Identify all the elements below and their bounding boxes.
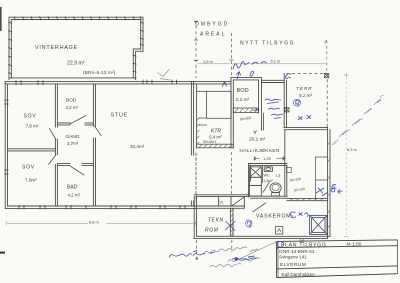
svg-text:Svingenv 141: Svingenv 141	[279, 254, 307, 259]
svg-text:VINTERHAGE: VINTERHAGE	[35, 45, 78, 51]
svg-text:BOD: BOD	[237, 88, 249, 94]
svg-text:7,6 m²: 7,6 m²	[26, 123, 39, 128]
svg-text:BAD: BAD	[67, 184, 78, 190]
svg-text:20,1 m²: 20,1 m²	[249, 136, 266, 142]
svg-text:1,5m²: 1,5m²	[264, 179, 274, 183]
svg-text:VASKEROM: VASKEROM	[256, 214, 291, 220]
svg-text:TERR: TERR	[296, 86, 313, 91]
svg-text:BOD: BOD	[66, 97, 77, 103]
svg-text:NYTT TILBYGG: NYTT TILBYGG	[240, 41, 295, 47]
svg-text:TEKN: TEKN	[208, 217, 224, 223]
svg-text:M-1:50: M-1:50	[347, 242, 362, 248]
svg-text:WC: WC	[264, 174, 271, 178]
svg-text:4,2 m²: 4,2 m²	[68, 192, 81, 197]
svg-text:1,9 m: 1,9 m	[203, 59, 213, 64]
svg-text:AREAL: AREAL	[200, 32, 226, 38]
svg-text:GANG: GANG	[66, 134, 80, 140]
svg-text:OMBYGD: OMBYGD	[195, 22, 229, 28]
svg-text:9,8 m: 9,8 m	[89, 220, 99, 225]
svg-text:3,7m²: 3,7m²	[67, 141, 79, 146]
svg-text:50×48×1: 50×48×1	[203, 140, 217, 144]
svg-text:5,1 m: 5,1 m	[271, 59, 281, 64]
svg-text:32,4m²: 32,4m²	[130, 144, 145, 149]
svg-text:ROM: ROM	[205, 228, 219, 234]
svg-text:SOV: SOV	[24, 113, 37, 119]
svg-text:HALL/KJØKKEN: HALL/KJØKKEN	[240, 148, 280, 153]
svg-text:Egil Damhokken: Egil Damhokken	[282, 272, 316, 277]
svg-text:(BRA-6-13 m²): (BRA-6-13 m²)	[83, 70, 116, 75]
svg-text:4,2 m²: 4,2 m²	[66, 105, 79, 110]
svg-text:1,5: 1,5	[276, 174, 281, 178]
svg-text:STUE: STUE	[111, 112, 129, 118]
svg-text:ELVERUM: ELVERUM	[280, 262, 306, 268]
svg-text:5,4 m²: 5,4 m²	[209, 134, 222, 139]
svg-text:1,25: 1,25	[263, 156, 272, 161]
svg-text:8,3 m: 8,3 m	[347, 147, 357, 152]
svg-text:SOV: SOV	[22, 164, 35, 170]
svg-text:VL: VL	[220, 201, 224, 205]
svg-text:22,9 m²: 22,9 m²	[67, 61, 85, 67]
svg-text:PLAN TILBYGG: PLAN TILBYGG	[281, 242, 327, 248]
svg-text:7,6m²: 7,6m²	[25, 178, 37, 183]
svg-text:5,2 m²: 5,2 m²	[299, 93, 312, 98]
svg-text:2,2 m²: 2,2 m²	[236, 97, 250, 103]
